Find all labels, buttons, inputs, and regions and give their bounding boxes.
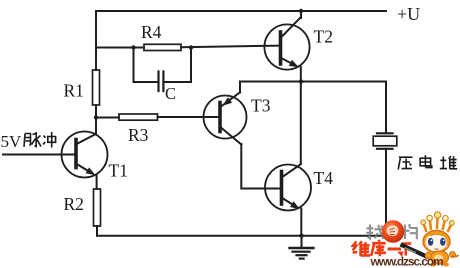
svg-text:+U: +U: [397, 4, 420, 24]
svg-text:T1: T1: [109, 161, 128, 181]
wire T3 emitter up: [239, 82, 241, 93]
wire top supply rail: [97, 10, 386, 12]
label 堆 (dui) of piezo stack: [440, 156, 457, 169]
label C: [165, 84, 176, 103]
wire piezo top: [385, 82, 387, 134]
label 5V (of 5V pulse input): [1, 132, 23, 151]
svg-text:T3: T3: [251, 96, 271, 116]
svg-text:C: C: [165, 84, 176, 103]
label +U: [397, 4, 420, 24]
transistor T4: [265, 164, 311, 211]
wire T4 emitter to ground rail: [300, 209, 302, 236]
svg-text:R2: R2: [64, 194, 84, 214]
wire T3 collector to T4 base: [241, 144, 280, 189]
watermark red logo char 下: [402, 244, 411, 256]
node junction T2 emitter / piezo line: [299, 79, 303, 83]
watermark pen of mascot: [397, 245, 429, 258]
watermark mascot head: [423, 231, 450, 253]
svg-text:R3: R3: [128, 125, 149, 145]
label 脉 (mai) of 5V pulse: [24, 132, 41, 147]
wire R2 to bottom rail: [96, 226, 98, 236]
watermark red ball logo: [382, 220, 405, 243]
wire T1 emitter to R2: [96, 175, 98, 189]
watermark url www.dzsc.com: [370, 255, 444, 268]
label 冲 (chong) of 5V pulse: [43, 132, 56, 148]
transistor T1: [62, 132, 108, 178]
wire R3 to T3 base: [158, 116, 220, 118]
watermark red logo char 一: [388, 248, 401, 251]
label 电 (dian) of piezo stack: [420, 155, 432, 167]
svg-text:T4: T4: [314, 168, 334, 188]
label R2: [64, 194, 84, 214]
wire left vertical upper: [95, 11, 97, 70]
node junction C branch right: [189, 45, 193, 49]
piezo stack element: [373, 133, 397, 149]
label R4: [141, 22, 162, 42]
wire R4 to T2 base: [181, 46, 280, 48]
label T4: [314, 168, 334, 188]
svg-text:R1: R1: [64, 81, 84, 101]
watermark mascot body: [425, 251, 458, 267]
svg-text:5V: 5V: [1, 132, 23, 151]
label R1: [64, 81, 84, 101]
svg-text:R4: R4: [141, 22, 162, 42]
watermark gray character 片: [405, 224, 417, 239]
wire left vertical middle: [95, 105, 97, 135]
resistor R2: [94, 189, 101, 226]
watermark mascot crown: [421, 212, 454, 232]
watermark red logo char 维: [353, 241, 371, 256]
label T3: [251, 96, 271, 116]
wire input 5V pulse: [3, 154, 75, 156]
wire capacitor branch left: [134, 48, 158, 83]
node junction C branch left: [131, 45, 135, 49]
resistor R1: [93, 70, 100, 105]
node junction on top rail: [299, 9, 303, 13]
watermark gray character 找: [366, 225, 383, 239]
resistor R3: [119, 114, 158, 120]
label T1: [109, 161, 128, 181]
svg-text:T2: T2: [314, 27, 333, 47]
capacitor C plates: [159, 72, 164, 92]
wire T2 collector to rail: [300, 11, 302, 18]
wire R3 branch left: [96, 117, 119, 119]
wire R4 branch left: [96, 47, 144, 49]
resistor R4: [144, 44, 181, 50]
label R3: [128, 125, 149, 145]
wire horizontal to piezo: [240, 81, 386, 83]
watermark red logo char 库: [371, 240, 386, 256]
transistor T2: [264, 18, 309, 70]
wire T2 emitter down to T4 collector: [300, 67, 302, 164]
transistor T3: [204, 92, 247, 144]
wire piezo bottom: [385, 149, 387, 236]
node junction left vertical / R3: [94, 115, 98, 119]
label 压 (ya) of piezo stack: [398, 157, 412, 169]
ground symbol: [290, 236, 314, 259]
node junction ground: [299, 234, 303, 238]
svg-text:www.dzsc.com: www.dzsc.com: [370, 255, 444, 268]
wire bottom rail: [97, 235, 386, 237]
wire capacitor branch right: [165, 48, 192, 83]
label T2: [314, 27, 333, 47]
